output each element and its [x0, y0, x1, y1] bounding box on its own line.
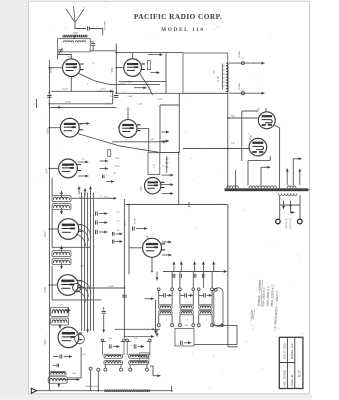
wire — [120, 365, 122, 369]
wire — [51, 90, 105, 92]
title block text — [283, 343, 302, 387]
band switch bus wire — [163, 271, 219, 273]
wire with arrow — [78, 161, 89, 164]
svg-text:C-204: C-204 — [104, 104, 109, 106]
switch drop wire — [202, 272, 204, 288]
diagonal cathode wire V3 — [78, 134, 161, 153]
junction — [115, 52, 117, 54]
range notes text — [249, 279, 280, 330]
wire — [128, 205, 130, 275]
svg-text:JAN 27 1936: JAN 27 1936 — [283, 343, 287, 360]
wire with arrow — [292, 211, 295, 214]
svg-text:.05: .05 — [117, 220, 120, 222]
svg-text:.5M: .5M — [112, 173, 116, 175]
svg-text:6-17: 6-17 — [297, 370, 301, 377]
capacitor on rail — [47, 96, 51, 98]
wire with arrow — [188, 294, 193, 297]
switch arrow down — [289, 201, 292, 208]
bus arrow down — [86, 326, 89, 333]
RF coil L4 — [52, 204, 71, 210]
wire — [247, 160, 249, 185]
junction — [49, 228, 51, 230]
wire — [146, 365, 148, 369]
wire with arrow — [219, 270, 227, 273]
wire — [110, 84, 160, 86]
mains wire — [279, 195, 281, 219]
wire — [132, 53, 134, 59]
mains terminal — [276, 219, 281, 224]
speaker wire with arrow — [229, 62, 265, 65]
scan speckle — [40, 6, 303, 388]
junction — [49, 168, 51, 170]
capacitor — [113, 240, 115, 244]
junction — [49, 103, 51, 105]
wire — [291, 208, 294, 213]
svg-text:505: 505 — [134, 338, 137, 340]
wire — [92, 46, 94, 51]
svg-text:50,000: 50,000 — [157, 99, 163, 101]
wire — [183, 148, 228, 150]
svg-text:110 VOLTS: 110 VOLTS — [284, 218, 286, 229]
svg-text:MODEL 110: MODEL 110 — [161, 27, 204, 33]
capacitor on rail — [114, 96, 118, 98]
wire — [127, 107, 129, 119]
wire with arrow — [99, 221, 108, 224]
terminal — [129, 368, 132, 371]
wire with arrow down — [156, 332, 159, 337]
wire — [275, 125, 280, 188]
wire — [49, 127, 60, 129]
trimmer capacitor — [58, 48, 63, 54]
wire with arrow — [112, 140, 166, 143]
tube V2 6D6 — [124, 59, 145, 77]
wire — [235, 170, 237, 188]
svg-text:503: 503 — [59, 305, 62, 307]
junction — [115, 92, 117, 94]
terminal — [178, 324, 181, 327]
antenna coil secondary winding b — [75, 41, 85, 42]
wire with arrow up — [202, 262, 205, 272]
wire — [112, 91, 114, 104]
terminal — [192, 288, 195, 291]
terminal — [197, 324, 200, 327]
left bus wire — [48, 60, 50, 391]
tube V8 — [58, 327, 82, 348]
switch drop wire — [179, 272, 181, 288]
IF transformer bottom frame — [102, 342, 124, 356]
cathode curves V6 — [76, 224, 91, 246]
svg-text:6A7: 6A7 — [43, 339, 47, 345]
wire with arrow — [78, 175, 89, 178]
title block table — [279, 337, 303, 388]
oscillator section box — [148, 153, 160, 175]
coil L10 — [48, 377, 67, 383]
svg-text:R-209: R-209 — [65, 101, 72, 103]
junction — [112, 90, 114, 92]
wire — [49, 167, 58, 169]
wire — [228, 148, 251, 150]
wire — [49, 228, 58, 230]
RF coil L5 — [52, 251, 71, 257]
wire with arrow — [124, 335, 154, 338]
terminal — [192, 324, 195, 327]
trimmer tee — [66, 308, 71, 312]
wire with arrow — [151, 71, 160, 74]
terminal — [157, 288, 160, 291]
terminal — [104, 368, 107, 371]
wire — [158, 315, 160, 324]
svg-text:6D6: 6D6 — [110, 67, 114, 73]
antenna — [66, 6, 84, 22]
output transformer box — [183, 53, 228, 93]
wire — [179, 315, 181, 324]
wire with arrow — [113, 345, 120, 348]
speaker field winding on ground wire — [104, 390, 150, 392]
terminal — [211, 324, 214, 327]
wire — [103, 307, 105, 311]
wire with arrow down — [102, 326, 105, 333]
gang bus wire — [92, 193, 94, 332]
wire — [265, 108, 267, 112]
wire with arrow up — [172, 262, 175, 272]
tube V3 6C6 — [60, 118, 82, 137]
winding lead wire — [222, 64, 224, 90]
terminal — [126, 339, 129, 342]
terminal — [89, 367, 92, 370]
cathode curves V7 — [76, 280, 92, 302]
wire with arrow — [52, 106, 62, 109]
svg-text:4: 4 — [229, 268, 230, 270]
wire right mid rail — [178, 93, 180, 152]
tube V12 6T5 — [249, 138, 267, 156]
svg-text:6A7: 6A7 — [139, 185, 143, 190]
AVC rail wire — [123, 199, 125, 338]
wire with arrow — [148, 53, 163, 56]
oscillator coil upper — [159, 305, 172, 309]
wire with arrow up — [193, 262, 196, 272]
wire with arrow — [162, 241, 172, 244]
wire with arrow — [116, 232, 123, 235]
svg-text:504: 504 — [108, 338, 111, 340]
terminal — [211, 288, 214, 291]
wire with arrow — [162, 140, 170, 143]
padder capacitor — [185, 293, 187, 297]
capacitor C2 — [91, 44, 95, 46]
svg-text:502: 502 — [59, 248, 62, 250]
wire with arrow down — [154, 327, 157, 334]
resistor R-20 vertical — [165, 156, 168, 173]
svg-text:2: 2 — [195, 268, 196, 270]
svg-text:R-31: R-31 — [231, 143, 235, 145]
stage box wire — [52, 299, 101, 301]
switch terminal — [221, 324, 224, 327]
capacitor trimmer — [109, 344, 111, 348]
wire — [211, 315, 213, 324]
svg-text:C-205: C-205 — [137, 104, 142, 106]
wire — [171, 315, 173, 324]
svg-text:COMP: COMP — [108, 286, 115, 288]
wire — [53, 364, 56, 366]
coil label box — [140, 353, 150, 357]
wire with arrow up — [84, 188, 87, 196]
wire — [116, 52, 183, 54]
antenna lead wire — [75, 22, 86, 29]
wire with arrow — [167, 294, 172, 297]
wire — [228, 346, 238, 348]
wire — [49, 103, 112, 105]
wire with arrow up — [60, 246, 63, 253]
svg-text:A.V.C.: A.V.C. — [123, 219, 126, 226]
wire right rail — [227, 93, 229, 188]
tube V9 — [145, 178, 165, 194]
junction — [178, 152, 180, 154]
terminal — [120, 368, 123, 371]
wire — [36, 99, 38, 108]
junction — [49, 127, 51, 129]
wire with arrow — [264, 166, 270, 169]
wire with arrow — [162, 254, 172, 257]
wire with arrow up — [212, 262, 215, 272]
capacitor trimmer — [134, 344, 136, 348]
wire — [73, 35, 75, 39]
band switch wafer loop — [214, 288, 223, 327]
svg-text:4: 4 — [166, 320, 167, 322]
wire — [78, 287, 124, 289]
svg-text:V.C.: V.C. — [241, 58, 245, 60]
wire — [51, 178, 53, 196]
wire with arrow up — [286, 169, 289, 186]
winding tick marks — [223, 66, 225, 86]
IF transformer bottom frame — [127, 342, 150, 356]
cathode wire V1 — [78, 73, 110, 84]
wire with arrow — [104, 90, 113, 93]
wire — [155, 300, 157, 327]
svg-text:.05: .05 — [117, 230, 120, 232]
wire with arrow — [64, 355, 73, 358]
junction — [227, 148, 229, 150]
wire — [57, 52, 59, 60]
svg-text:810: 810 — [67, 57, 70, 59]
terminal — [145, 368, 148, 371]
wire with arrow down — [57, 384, 60, 387]
wire with arrow down — [60, 208, 63, 215]
wire — [58, 55, 72, 59]
wire with arrow — [106, 180, 114, 183]
output transformer winding — [226, 63, 228, 92]
svg-text:6A7: 6A7 — [45, 168, 49, 174]
wire with arrow — [108, 197, 116, 200]
wire — [90, 41, 93, 44]
wire — [178, 153, 180, 205]
antenna coil primary winding — [63, 35, 88, 38]
wire — [49, 106, 116, 108]
wire — [211, 291, 213, 305]
svg-text:4: 4 — [187, 320, 188, 322]
RF coil L6 — [52, 259, 71, 265]
svg-text:C-20: C-20 — [80, 266, 84, 268]
tube V1 6D6 — [63, 59, 84, 77]
right rail wire — [227, 205, 229, 347]
svg-text:.010: .010 — [72, 31, 78, 35]
oscillator coil lower — [180, 310, 193, 314]
capacitor — [96, 220, 98, 224]
junction — [151, 271, 153, 273]
svg-text:1: 1 — [174, 268, 175, 270]
svg-text:506: 506 — [72, 373, 75, 375]
tube V8 extra envelope — [75, 334, 85, 344]
wire — [156, 329, 158, 332]
wire — [159, 105, 161, 153]
svg-text:V.C.: V.C. — [241, 90, 245, 92]
svg-text:4: 4 — [206, 320, 207, 322]
svg-text:25,000: 25,000 — [218, 75, 220, 82]
coil L9 — [49, 372, 66, 376]
terminal — [197, 288, 200, 291]
capacitor — [113, 232, 115, 236]
wire with arrow up — [298, 169, 301, 185]
wire — [71, 197, 112, 199]
svg-text:C-2: C-2 — [92, 63, 95, 65]
svg-text:3: 3 — [213, 268, 214, 270]
tick wire — [188, 202, 190, 207]
power transformer winding b — [249, 186, 276, 188]
wire — [171, 386, 173, 391]
wire — [236, 325, 238, 344]
svg-text:C-8: C-8 — [81, 159, 84, 161]
svg-text:6A8: 6A8 — [43, 287, 47, 293]
wire — [137, 129, 149, 153]
wire with arrow — [99, 231, 108, 234]
padder capacitor — [204, 293, 206, 297]
capacitor on AVC rail — [122, 295, 126, 297]
wire — [104, 365, 106, 369]
IF coil winding lower — [129, 361, 149, 365]
junction — [124, 287, 126, 289]
wire with arrow — [80, 122, 90, 125]
mains wire — [299, 195, 301, 219]
wire — [150, 366, 153, 376]
ground lead connector — [31, 388, 36, 393]
wire — [192, 291, 194, 305]
capacitor — [102, 312, 106, 314]
wire — [90, 29, 103, 36]
wire — [269, 156, 271, 160]
junction — [49, 92, 51, 94]
wire with arrow down — [60, 263, 63, 270]
oscillator coil upper — [199, 305, 212, 309]
page margin shading — [0, 0, 28, 400]
wire — [248, 159, 270, 161]
terminal — [97, 368, 100, 371]
switch drop wire — [192, 272, 194, 288]
wire — [180, 294, 185, 296]
wire — [49, 67, 62, 69]
wire — [165, 53, 167, 94]
RF coil L8 — [51, 318, 69, 325]
wire — [261, 167, 265, 185]
switch capacitor — [173, 274, 175, 278]
capacitor — [96, 230, 98, 234]
IF coil winding upper — [129, 354, 149, 358]
svg-text:PACIFIC RADIO CORP.: PACIFIC RADIO CORP. — [134, 12, 222, 21]
capacitor — [60, 354, 62, 358]
wire with arrow — [162, 183, 174, 186]
capacitor — [133, 226, 135, 230]
power transformer primary winding — [278, 193, 297, 195]
wire with arrow — [60, 378, 80, 381]
gang bus wire — [90, 193, 92, 332]
svg-text:R-245: R-245 — [62, 88, 69, 90]
wire — [129, 365, 131, 369]
terminal — [101, 339, 104, 342]
wire with arrow — [116, 240, 123, 243]
wire with arrow — [134, 86, 146, 89]
oscillator coil lower — [199, 310, 212, 314]
wire with arrow — [162, 131, 170, 134]
svg-text:R-12: R-12 — [116, 211, 120, 213]
IF coil winding lower — [104, 361, 123, 365]
stage wire — [67, 347, 81, 378]
svg-text:250 MMF: 250 MMF — [105, 20, 107, 30]
wire — [116, 92, 228, 94]
capacitor — [103, 175, 105, 179]
tube V7 — [58, 275, 82, 296]
svg-text:6A7: 6A7 — [43, 231, 47, 237]
wire — [194, 344, 237, 346]
wire with arrow — [162, 174, 174, 177]
coil label box — [140, 358, 150, 362]
svg-text:501: 501 — [59, 193, 62, 195]
wire — [115, 44, 117, 94]
junction — [152, 328, 154, 330]
svg-text:DWN. JB: DWN. JB — [290, 375, 294, 387]
gang bus wire — [87, 193, 89, 332]
IF coil winding upper — [104, 354, 123, 358]
bus wire — [126, 204, 228, 206]
speaker jack — [241, 62, 244, 65]
terminal — [123, 339, 126, 342]
mains crossbar wire — [280, 204, 300, 206]
switch capacitor — [180, 274, 182, 278]
tube V10 6B7 — [143, 238, 166, 257]
svg-text:6C6: 6C6 — [45, 128, 49, 134]
wire — [90, 370, 92, 391]
wire with arrow up — [78, 186, 81, 194]
capacitor .010 antenna series — [88, 26, 90, 30]
RF coil L3 — [52, 196, 71, 202]
wire — [160, 152, 179, 154]
wire — [115, 328, 160, 330]
svg-text:SPEAKER FIELD: SPEAKER FIELD — [85, 385, 100, 388]
wire with arrow down — [156, 272, 159, 281]
terminal — [171, 288, 174, 291]
oscillator coil upper — [180, 305, 193, 309]
switch box — [175, 328, 194, 346]
wire — [160, 152, 179, 154]
junction — [171, 390, 173, 392]
speaker wire with arrow — [229, 92, 265, 95]
svg-text:.1 MF: .1 MF — [135, 218, 137, 224]
antenna coil secondary winding a — [63, 41, 73, 42]
wire — [228, 117, 258, 119]
wire — [199, 294, 204, 296]
capacitor — [96, 211, 98, 215]
power transformer winding c — [287, 186, 296, 188]
wire — [159, 294, 164, 296]
svg-text:N-AF: N-AF — [128, 95, 133, 98]
switch capacitor — [202, 274, 204, 278]
tube V5 — [59, 159, 81, 178]
